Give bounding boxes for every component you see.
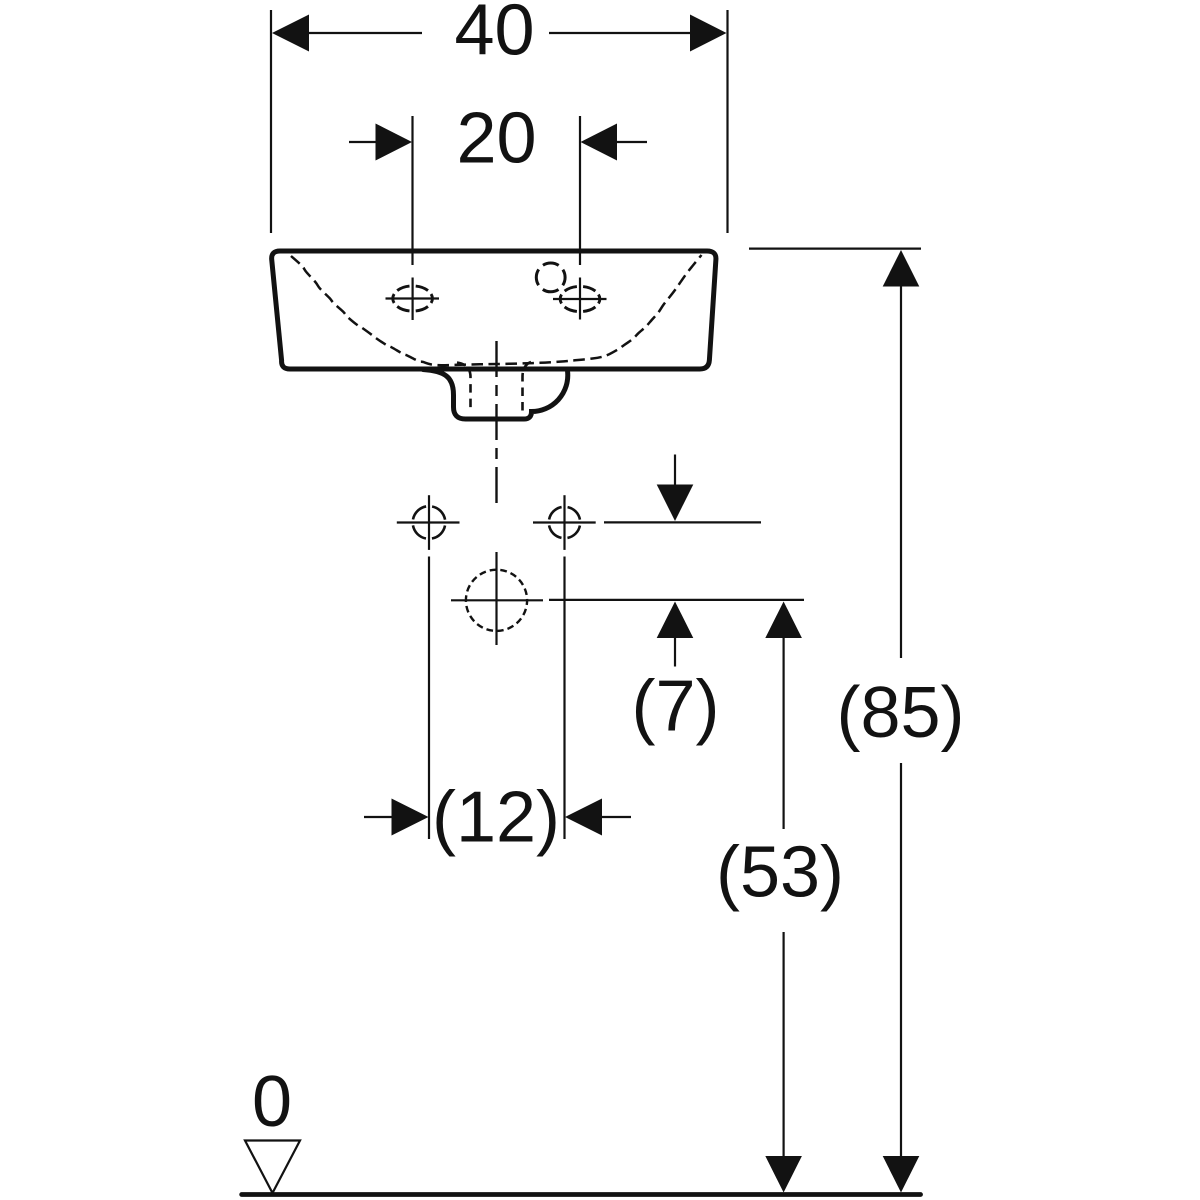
dimension 20 extension line right — [579, 116, 581, 265]
ground line — [242, 1192, 921, 1197]
dimension 40 arrow left — [272, 15, 309, 52]
fixing hole right dashed circle — [549, 507, 580, 538]
fixing hole right crosshair vertical — [563, 495, 565, 550]
dimension 53 down arrow — [765, 1156, 802, 1193]
dimension 40 arrow right — [690, 15, 727, 52]
svg-text:20: 20 — [456, 99, 536, 179]
faucet hole right dashed ellipse — [560, 287, 600, 312]
dimension 53 line upper segment — [782, 638, 784, 829]
drain hole dashed circle — [466, 570, 527, 631]
dimension 7 down arrow stem — [674, 455, 676, 486]
dimension 7 down arrow — [657, 485, 694, 522]
trap outline — [423, 370, 568, 420]
dimension 85 reference line — [749, 248, 921, 250]
dimension 85 down arrow — [883, 1156, 920, 1193]
faucet hole left crosshair horizontal — [386, 297, 440, 299]
extension line below fixing hole left — [428, 557, 430, 840]
svg-text:(85): (85) — [836, 673, 964, 753]
fixing hole left crosshair vertical — [428, 495, 430, 550]
svg-text:0: 0 — [252, 1062, 292, 1142]
dimension 85 up arrow — [883, 250, 920, 287]
dimension 85 line lower segment — [900, 763, 902, 1156]
centerline below basin — [495, 341, 497, 503]
fixing hole left dashed circle — [413, 506, 446, 539]
washbasin outline — [272, 251, 716, 369]
faucet hole left dashed ellipse — [393, 286, 433, 311]
dimension 40 extension line left — [270, 10, 272, 233]
dimension 20 extension line left — [411, 116, 413, 265]
dimension 12 arrow left — [392, 799, 429, 836]
faucet hole right crosshair vertical — [579, 278, 581, 320]
datum triangle — [245, 1141, 300, 1194]
dimension 40 line left segment — [308, 32, 422, 34]
dimension 85 line upper segment — [900, 287, 902, 659]
dimension 20 arrow right tail — [617, 141, 647, 143]
trap inner dashed wall left — [457, 363, 471, 412]
drain hole crosshair vertical — [495, 552, 497, 645]
dimension 7 up arrow stem — [674, 638, 676, 667]
dimension 53 line lower segment — [782, 932, 784, 1156]
dimension 12 arrow right tail — [602, 816, 631, 818]
fixing hole left crosshair horizontal — [397, 521, 460, 523]
dimension 12 arrow left tail — [364, 816, 392, 818]
extension line below fixing hole right — [563, 557, 565, 840]
dimension 40 extension line right — [726, 10, 728, 233]
auxiliary dashed circle — [536, 263, 565, 292]
basin inner rim dashed curve — [291, 255, 702, 365]
dimension 7 upper reference line — [604, 521, 761, 523]
dimension 20 arrow right — [581, 124, 618, 161]
dimension 40 line right segment — [549, 32, 691, 34]
trap inner dashed wall right — [523, 362, 532, 412]
drain hole crosshair horizontal — [451, 599, 543, 601]
svg-text:(53): (53) — [716, 833, 844, 913]
svg-text:40: 40 — [454, 0, 534, 71]
svg-text:(12): (12) — [432, 778, 560, 858]
dimension 20 arrow left tail — [349, 141, 376, 143]
dimension 12 arrow right — [565, 799, 602, 836]
fixing hole right crosshair horizontal — [533, 521, 596, 523]
faucet hole left crosshair vertical — [412, 278, 414, 321]
dimension 7 up arrow — [657, 602, 694, 639]
faucet hole right crosshair horizontal — [553, 298, 607, 300]
dimension 20 arrow left — [376, 124, 413, 161]
dimension 7 lower reference line — [549, 599, 804, 601]
svg-text:(7): (7) — [632, 667, 720, 747]
dimension 53 up arrow — [765, 602, 802, 639]
